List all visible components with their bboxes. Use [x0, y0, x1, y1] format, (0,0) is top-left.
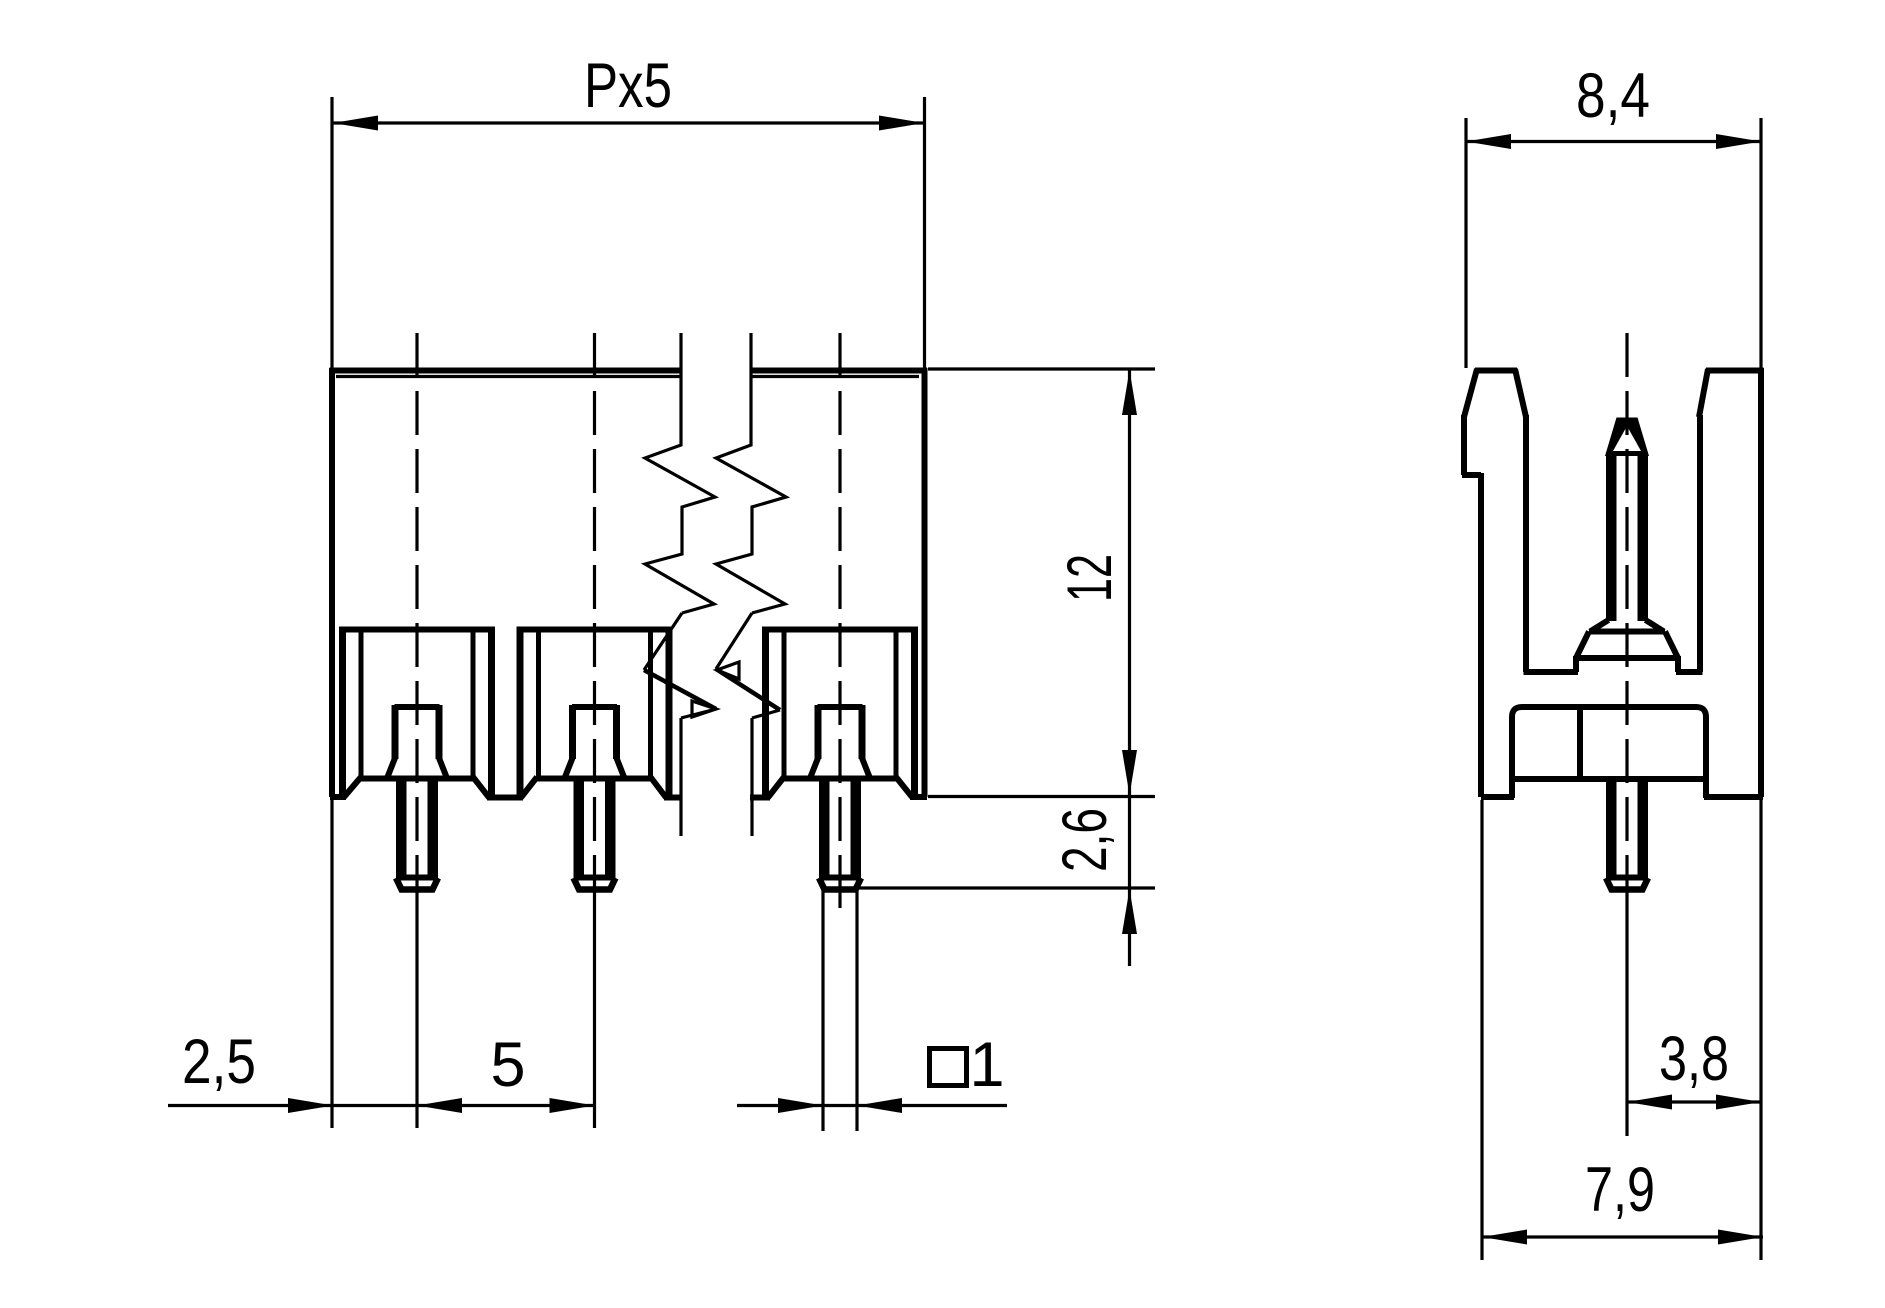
arrow 3,8 right [1716, 1095, 1761, 1110]
dimension line 3,8 [1627, 1100, 1761, 1103]
tower 3 inner left line [782, 632, 787, 778]
side pin tip [1605, 418, 1649, 457]
pin 1 left wall upper [392, 705, 399, 759]
break line right lower [750, 718, 753, 836]
side body right edge [1758, 368, 1764, 797]
pin 3 centerline [838, 333, 841, 889]
tower 2 outer left wall [517, 627, 524, 797]
svg-text:12: 12 [1055, 554, 1125, 602]
tower 2 inner right line [648, 632, 653, 778]
pin 2 tip [574, 878, 616, 890]
pin 1 centerline [415, 333, 418, 889]
arrow square1 left [778, 1098, 823, 1113]
pin 1 extension to bottom dims [415, 889, 418, 1128]
pin 1 top line [395, 704, 440, 710]
side base box bottom line [1512, 776, 1706, 782]
pin 1 trumpet right [439, 758, 447, 777]
body left edge [329, 368, 335, 797]
extension line left of Px5 [330, 97, 333, 368]
break line right return [752, 710, 780, 718]
pin 1 shaft left band [396, 779, 407, 878]
bottom right chamfer [896, 777, 912, 797]
bottom right floor [910, 794, 927, 800]
arrow 7,9 right [1718, 1230, 1763, 1245]
body top inner edge left segment [336, 375, 681, 378]
side channel floor left [1524, 669, 1579, 675]
side pin tip inner white [1613, 426, 1641, 451]
svg-text:5: 5 [490, 1030, 525, 1100]
side pin tip bottom [1606, 878, 1648, 890]
tower 1 bottom line [359, 776, 475, 782]
tower 2 outer right wall [666, 627, 673, 797]
arrow 8,4 right [1716, 134, 1761, 149]
pin 2 shaft right band [605, 779, 616, 878]
pin 1 tip [396, 878, 438, 890]
pin 3 chamfer top line [819, 875, 861, 881]
extension line bottom at body right for 12 [928, 795, 1155, 798]
break line left lower [679, 718, 682, 836]
pin 2 centerline [593, 333, 596, 889]
pin 2 shaft left band [574, 779, 585, 878]
extension of body left edge to bottom dims [330, 800, 333, 1128]
side collar right slant [1665, 632, 1678, 659]
pin 1 right wall upper [436, 705, 443, 759]
side channel floor right [1676, 669, 1703, 675]
label square symbol [930, 1049, 967, 1086]
valley floor t1-t2 [487, 795, 523, 801]
bottom dimension line left group [168, 1104, 595, 1107]
break line left jagged edge [644, 670, 716, 709]
pin 3 trumpet right [862, 758, 870, 777]
body right edge [922, 368, 928, 797]
side pin centerline [1625, 333, 1628, 889]
pin 3 shaft right band [851, 779, 862, 878]
extension line pin3 left wall for square1 [821, 885, 824, 1131]
side collar top [1589, 629, 1665, 635]
pin 2 chamfer top line [574, 875, 616, 881]
side pedestal right side [1675, 656, 1681, 672]
tower 3 top [762, 627, 918, 633]
dimension line 8,4 [1466, 140, 1761, 143]
arrow 5 left [417, 1098, 462, 1113]
valley chamfer t1 right [473, 777, 489, 798]
break line left return [681, 709, 716, 718]
break valley floor left [664, 795, 682, 801]
side extension left edge to 7,9 [1480, 800, 1483, 1260]
side pin centerline extension [1625, 889, 1628, 1136]
pin 3 shaft left band [819, 779, 830, 878]
extension line left of 8,4 [1464, 118, 1467, 368]
extension line top at body right for 12 [928, 367, 1155, 370]
break line right upper [716, 333, 786, 613]
arrow Px5 left [333, 116, 378, 131]
bottom left chamfer [344, 777, 361, 797]
side body right prong top [1706, 368, 1764, 374]
tower 1 inner right line [471, 632, 476, 778]
extension line right of Px5 [923, 97, 926, 368]
break line right jagged edge [716, 669, 780, 710]
side pin right wall band [1638, 453, 1649, 621]
side pedestal top [1576, 655, 1678, 661]
pin 2 left wall upper [569, 705, 576, 759]
arrow 12 bottom [1122, 750, 1137, 795]
side pin flare right [1646, 620, 1665, 632]
break line left triangle [692, 701, 716, 717]
svg-text:2,5: 2,5 [182, 1027, 256, 1097]
side extension right edge to dims [1759, 797, 1762, 1260]
body top inner edge right segment [751, 375, 919, 378]
svg-text:7,9: 7,9 [1585, 1155, 1655, 1225]
side body right prong inner wall [1697, 415, 1703, 672]
pin 1 trumpet left [388, 758, 396, 777]
dimension line 12 and 2,6 [1128, 369, 1131, 966]
arrow Px5 right [879, 116, 924, 131]
side bottom floor right [1704, 794, 1763, 800]
pin 3 extension stub below tip [838, 889, 841, 908]
tower 3 inner right line [894, 632, 899, 778]
extension line at pin tip for 2,6 [857, 886, 1155, 889]
arrow 12 top [1122, 370, 1137, 415]
tower 1 outer left wall [339, 627, 346, 797]
side pin shaft right band [1638, 779, 1649, 878]
svg-text:3,8: 3,8 [1659, 1024, 1729, 1094]
side body left prong top [1475, 368, 1517, 374]
break valley floor right [750, 795, 770, 801]
extension line right of 8,4 [1759, 118, 1762, 368]
pin 3 top line [818, 704, 863, 710]
break line left upper [645, 333, 715, 613]
tower 2 inner left line [536, 632, 541, 778]
break valley chamfer t3 left [768, 777, 784, 798]
bottom left floor [330, 794, 346, 800]
tower 1 inner left line [359, 632, 364, 778]
svg-text:2,6: 2,6 [1050, 808, 1120, 872]
valley chamfer t2 left [521, 777, 537, 798]
side body left prong inner chamfer [1515, 369, 1526, 417]
side body left prong outer chamfer [1464, 369, 1477, 417]
arrow 2,6 bottom [1122, 889, 1137, 934]
bottom dimension line right group [737, 1104, 1007, 1107]
side pedestal left side [1573, 656, 1579, 672]
pin 2 right wall upper [613, 705, 620, 759]
pin 3 trumpet left [811, 758, 819, 777]
break line right diagonal thin [716, 613, 752, 669]
break valley chamfer t2 right [651, 777, 667, 798]
arrow square1 right [857, 1098, 902, 1113]
pin 2 trumpet right [617, 758, 625, 777]
dimension line 7,9 [1482, 1235, 1763, 1238]
tower 2 top [517, 627, 673, 633]
side body left prong inner wall [1523, 415, 1529, 672]
side pin shaft left band [1606, 779, 1617, 878]
body top edge left segment [330, 368, 682, 374]
svg-text:Px5: Px5 [584, 51, 672, 121]
pin 3 left wall upper [815, 705, 822, 759]
pin 2 extension to bottom dims [593, 889, 596, 1128]
arrow 8,4 left [1466, 134, 1511, 149]
tower 1 outer right wall [488, 627, 495, 797]
pin 3 tip [819, 878, 861, 890]
tower 3 bottom line [782, 776, 898, 782]
side bottom floor left [1481, 794, 1514, 800]
pin 1 shaft right band [428, 779, 439, 878]
svg-text:8,4: 8,4 [1576, 61, 1650, 131]
side pin chamfer top line [1606, 875, 1648, 881]
extension line pin3 right wall for square1 [855, 885, 858, 1131]
side body left step [1462, 472, 1481, 478]
tower 3 outer left wall [762, 627, 769, 797]
side base box [1512, 707, 1706, 798]
side body left upper edge [1461, 415, 1467, 475]
break line left diagonal thin [644, 613, 682, 670]
pin 3 right wall upper [859, 705, 866, 759]
svg-text:1: 1 [969, 1030, 1004, 1100]
arrow 5 right [550, 1098, 595, 1113]
pin 2 trumpet left [565, 758, 573, 777]
arrow 2,5 at body edge [288, 1098, 333, 1113]
arrow 7,9 left [1482, 1230, 1527, 1245]
arrow 3,8 left [1627, 1095, 1672, 1110]
tower 3 outer right wall [911, 627, 918, 797]
pin 1 chamfer top line [396, 875, 438, 881]
tower 1 top [339, 627, 495, 633]
side pin flare left [1590, 620, 1609, 632]
body top edge right segment [751, 368, 927, 374]
side base divider [1577, 709, 1583, 777]
side body right prong inner chamfer [1699, 369, 1708, 417]
dimension line Px5 [333, 121, 924, 124]
side collar left slant [1576, 632, 1589, 659]
tower 2 bottom line [537, 776, 653, 782]
side body left lower edge [1478, 473, 1484, 797]
side pin left wall band [1606, 453, 1617, 621]
pin 2 top line [572, 704, 617, 710]
break line right triangle [717, 662, 739, 679]
